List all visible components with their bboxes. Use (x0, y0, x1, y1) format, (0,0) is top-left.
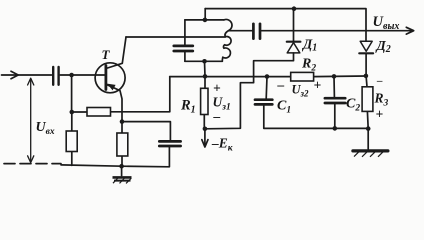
svg-text:+: + (213, 81, 221, 96)
svg-text:C1: C1 (277, 99, 291, 116)
svg-text:Uвых: Uвых (373, 14, 400, 32)
svg-text:–: – (213, 109, 221, 124)
svg-text:C2: C2 (346, 97, 360, 114)
svg-text:Д1: Д1 (301, 37, 317, 54)
svg-text:R2: R2 (301, 57, 316, 74)
svg-text:+: + (376, 107, 384, 122)
svg-text:Д2: Д2 (375, 38, 391, 55)
svg-text:R1: R1 (180, 98, 196, 116)
svg-text:Uвх: Uвх (36, 120, 55, 137)
svg-text:–: – (277, 77, 285, 92)
svg-text:–Eк: –Eк (211, 136, 234, 154)
svg-text:+: + (314, 78, 322, 93)
svg-text:T: T (102, 47, 111, 62)
svg-text:–: – (376, 75, 383, 87)
svg-text:Uз2: Uз2 (292, 83, 310, 99)
